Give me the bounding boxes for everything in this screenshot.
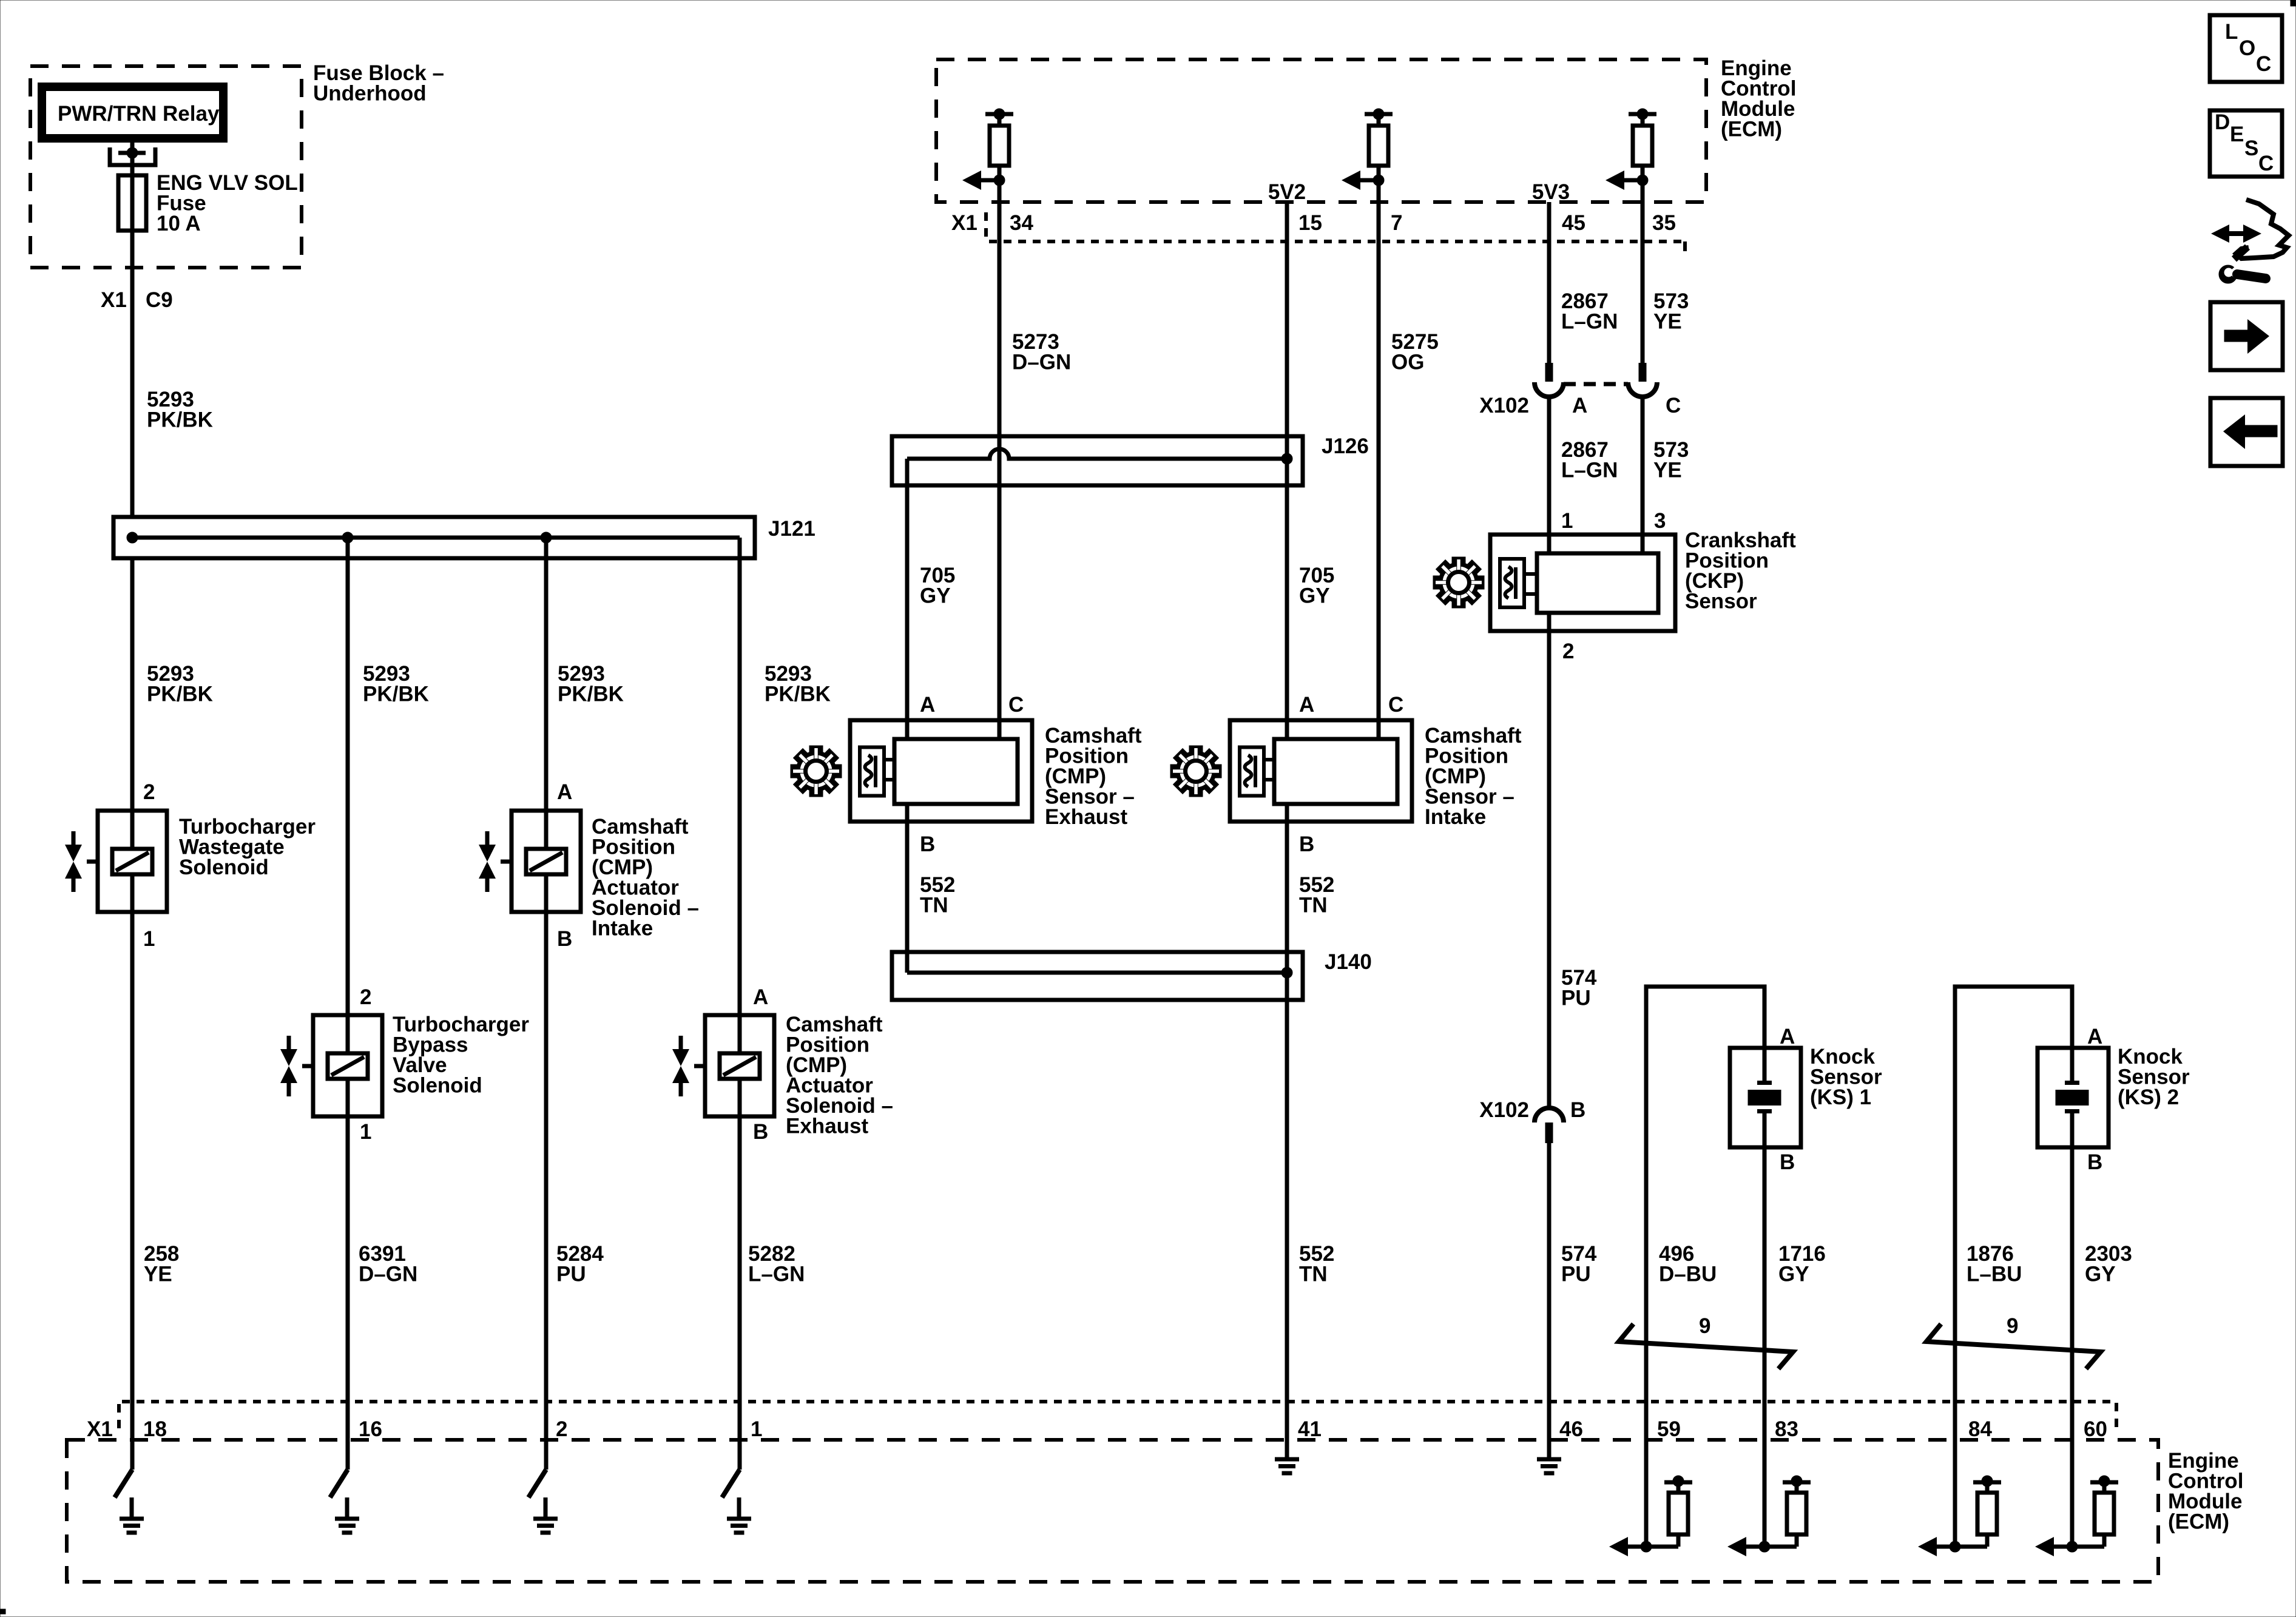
wire pin 41 into ECM (1285, 1402, 1289, 1457)
valve symbol valve arrows of CMP Actuator Solenoid Intake (479, 831, 496, 892)
svg-text:46: 46 (1559, 1417, 1583, 1441)
resistor to voltage w/ arrow for pin 84 (inside ECM) (1918, 1476, 2001, 1556)
fuse holder clip (110, 147, 155, 165)
knock sensor (KS) 1 box (1730, 1048, 1801, 1147)
svg-text:705GY: 705GY (920, 564, 955, 608)
wire 6391 D-GN to ECM pin 16 (346, 1116, 350, 1402)
svg-text:A: A (753, 985, 768, 1009)
junction dot at relay output (127, 147, 138, 158)
svg-text:15: 15 (1298, 211, 1322, 235)
wire 258 YE to ECM pin 18 (130, 912, 135, 1402)
svg-text:16: 16 (359, 1417, 382, 1441)
ground pin 2 driver ground (533, 1497, 558, 1533)
wire pin 1 into ECM (738, 1402, 742, 1470)
svg-text:C: C (1388, 693, 1403, 717)
svg-text:B: B (557, 927, 572, 951)
connector X102 B: male pin (1545, 1122, 1553, 1143)
svg-text:34: 34 (1010, 211, 1033, 235)
svg-text:C: C (2256, 52, 2271, 76)
ground pin 1 driver ground (727, 1497, 751, 1533)
wire 573 YE: ECM 35 to X102 C (1641, 180, 1645, 363)
svg-text:59: 59 (1657, 1417, 1681, 1441)
resistor to voltage w/ arrow for pin 83 (inside ECM) (1727, 1476, 1811, 1556)
valve symbol valve arrows of Turbocharger Wastegate Solenoid (65, 831, 82, 892)
resistor pull-up for pin 7 (inside ECM) (1342, 109, 1393, 190)
svg-text:84: 84 (1968, 1417, 1992, 1441)
forward arrow icon box (2210, 302, 2283, 370)
relay output bar (118, 151, 146, 155)
svg-text:B: B (1780, 1150, 1795, 1174)
svg-text:J126: J126 (1322, 434, 1369, 458)
svg-text:A: A (1572, 394, 1587, 417)
wrench handle (2237, 274, 2266, 279)
svg-text:B: B (920, 832, 935, 856)
wire 552 TN: CMP intake B through J140 to ECM pin 41 (1285, 804, 1289, 1402)
switch contact driver pin 16 (inside ECM) (330, 1470, 348, 1497)
ground pin 46 ground (1537, 1438, 1561, 1473)
wire 5293 PK/BK to wastegate solenoid (130, 558, 135, 811)
wire 5275 OG: ECM 7 to CMP intake C (1377, 180, 1381, 739)
svg-text:C: C (2258, 152, 2274, 175)
svg-text:B: B (1570, 1098, 1585, 1122)
wire 2867 L-GN: X102 A to CKP pin 1 (1547, 397, 1551, 553)
wire 705 GY: J126 to CMP exhaust A (905, 459, 910, 739)
junction dot J121 @ wire 16 (342, 532, 353, 543)
wire pin 2 into ECM (544, 1402, 549, 1470)
svg-text:1: 1 (1561, 509, 1573, 533)
splice pack J140 (892, 952, 1303, 1000)
Crankshaft Position (CKP) Sensor outer case (1490, 535, 1675, 631)
knock sensor 1 harness loop (1646, 987, 1764, 1402)
svg-text:J140: J140 (1325, 950, 1372, 974)
fuse ENG VLV SOL 10A (118, 175, 146, 231)
knock sensor (KS) 2 box (2038, 1048, 2109, 1147)
Camshaft Position (CMP) Sensor Exhaust body (894, 739, 1018, 804)
back arrow (2223, 414, 2277, 449)
connection stubs of Camshaft Position (CMP) Sensor Exhaust (884, 758, 894, 761)
wire: relay to fuse (130, 138, 135, 177)
svg-text:C: C (1666, 394, 1681, 417)
wire 5293 PK/BK to CMP actuator exhaust (738, 538, 742, 1015)
wire 2867 L-GN: ECM 45 to X102 A (1547, 202, 1551, 363)
pickup element of Camshaft Position (CMP) Sensor Exhaust (860, 748, 884, 796)
svg-text:2: 2 (143, 780, 155, 804)
resistor pull-up for pin 34 (inside ECM) (962, 109, 1013, 190)
knock sensor 2 harness loop (1955, 987, 2072, 1402)
X102 connector dashed link A-C (1564, 382, 1628, 387)
ground pin 18 driver ground (120, 1497, 144, 1533)
wire 573 YE: X102 C to CKP pin 3 (1641, 397, 1645, 553)
solenoid Turbocharger Bypass Valve Solenoid (302, 1015, 382, 1116)
ECM X1 connector dotted line (bottom) (122, 1400, 2116, 1403)
Engine Control Module (ECM) bottom dashed box (67, 1440, 2158, 1582)
svg-text:41: 41 (1298, 1417, 1322, 1441)
wire pin 59 into ECM (1644, 1402, 1649, 1547)
wire 574 PU: CKP pin 2 to X102 B (1547, 613, 1551, 1108)
svg-text:X102: X102 (1479, 1098, 1529, 1122)
wire 574 PU: X102 B to ECM pin 46 (1547, 1143, 1551, 1402)
svg-text:X1: X1 (87, 1417, 113, 1441)
back arrow icon box (2210, 398, 2283, 466)
wire 1716 GY: KS1 B to ECM pin 83 (1763, 1112, 1767, 1402)
gear icon (CMP sensor intake) (1170, 746, 1221, 797)
switch contact driver pin 1 (inside ECM) (722, 1470, 740, 1497)
J126 internal bus with hop over 5273 (907, 449, 1287, 459)
svg-text:A: A (557, 780, 572, 804)
svg-text:3: 3 (1654, 509, 1666, 533)
wire 2303 GY: KS2 B to ECM pin 60 (2070, 1112, 2075, 1402)
svg-text:A: A (920, 693, 935, 717)
Camshaft Position (CMP) Sensor Exhaust outer case (850, 720, 1032, 822)
right tick (bottom pin row) (2115, 1403, 2118, 1433)
wrench jaw (2219, 265, 2237, 283)
svg-text:C9: C9 (146, 288, 173, 312)
junction dot J140 (1281, 967, 1292, 978)
valve symbol valve arrows of Turbocharger Bypass Valve Solenoid (280, 1036, 297, 1096)
svg-text:J121: J121 (768, 517, 815, 541)
wire 552 TN: CMP exhaust B to J140 (905, 804, 910, 973)
piezo element of knock sensor 2 (2056, 1083, 2089, 1112)
ground pin 41 ground (1275, 1438, 1299, 1473)
piezo element of knock sensor 1 (1748, 1083, 1781, 1112)
wire pin 46 into ECM (1547, 1402, 1551, 1457)
stray tick mark top-right corner (2291, 0, 2296, 6)
svg-text:18: 18 (143, 1417, 167, 1441)
svg-text:PWR/TRN Relay: PWR/TRN Relay (58, 102, 220, 126)
fuse block - underhood dashed box (30, 66, 302, 268)
hand cuff (2234, 247, 2247, 259)
PWR/TRN Relay box (42, 87, 223, 138)
wire: fuse down to J121 (5293 PK/BK) (130, 177, 135, 517)
wire 5293 PK/BK to bypass solenoid (346, 538, 350, 1015)
solenoid Turbocharger Wastegate Solenoid (87, 811, 167, 912)
pickup element of Camshaft Position (CMP) Sensor Intake (1240, 748, 1264, 796)
svg-text:L: L (2225, 20, 2238, 44)
valve symbol valve arrows of CMP Actuator Solenoid Exhaust (672, 1036, 689, 1096)
svg-text:35: 35 (1652, 211, 1676, 235)
gear icon (CMP sensor exhaust) (791, 746, 842, 797)
svg-text:60: 60 (2084, 1417, 2107, 1441)
twisted-pair mark knock sensor 2 pair (1926, 1324, 2101, 1369)
right tick (top pin row) (1683, 241, 1687, 251)
svg-text:X1: X1 (951, 211, 977, 235)
svg-text:1: 1 (751, 1417, 762, 1441)
ECM X1 connector dotted line (top) (989, 240, 1685, 243)
wire pin 16 into ECM (346, 1402, 350, 1470)
svg-text:1876L–BU: 1876L–BU (1967, 1242, 2022, 1286)
svg-text:2: 2 (360, 985, 371, 1009)
X1 tick (bottom) (117, 1404, 121, 1431)
wire pin 83 into ECM (1763, 1402, 1767, 1547)
switch contact driver pin 18 (inside ECM) (115, 1470, 132, 1497)
svg-text:1: 1 (143, 927, 155, 951)
svg-text:5V2: 5V2 (1268, 180, 1306, 204)
svg-text:B: B (753, 1120, 768, 1144)
Camshaft Position (CMP) Sensor Intake body (1274, 739, 1397, 804)
connection stubs of Camshaft Position (CMP) Sensor Intake (1264, 758, 1274, 761)
connection stubs of Crankshaft Position (CKP) Sensor (1524, 572, 1537, 576)
svg-text:E: E (2230, 123, 2244, 146)
svg-text:2: 2 (1562, 640, 1574, 663)
connector X102 A: male pin (1545, 363, 1553, 382)
resistor pull-up for pin 35 (inside ECM) (1606, 109, 1656, 190)
svg-text:7: 7 (1391, 211, 1402, 235)
svg-text:C: C (1008, 693, 1024, 717)
DESC icon box (2210, 110, 2282, 177)
junction dot J121 @ wire 18 (127, 532, 138, 543)
svg-text:B: B (1299, 832, 1314, 856)
svg-text:B: B (2087, 1150, 2102, 1174)
wire pin 84 into ECM (1953, 1402, 1957, 1547)
stray period mark bottom-left (0, 1609, 5, 1614)
svg-text:1: 1 (360, 1120, 371, 1144)
wire pin 18 into ECM (130, 1402, 135, 1470)
svg-text:D: D (2215, 110, 2230, 134)
splice pack J121 (113, 517, 755, 558)
pickup element of Crankshaft Position (CKP) Sensor (1500, 559, 1524, 607)
svg-text:9: 9 (1699, 1314, 1710, 1338)
X1 tick (top) (984, 212, 988, 238)
svg-text:A: A (1299, 693, 1314, 717)
splice pack J126 (892, 436, 1303, 485)
svg-text:9: 9 (2007, 1314, 2018, 1338)
resistor to voltage w/ arrow for pin 59 (inside ECM) (1609, 1476, 1692, 1556)
Crankshaft Position (CKP) Sensor body (1537, 553, 1658, 613)
svg-text:O: O (2239, 36, 2255, 60)
resistor to voltage w/ arrow for pin 60 (inside ECM) (2035, 1476, 2118, 1556)
wire pin 60 into ECM (2070, 1402, 2075, 1547)
svg-text:705GY: 705GY (1299, 564, 1334, 608)
J140 internal bus (907, 971, 1287, 975)
svg-text:A: A (1780, 1025, 1795, 1048)
junction dot J121 @ wire 2 (541, 532, 552, 543)
LOC icon box (2210, 15, 2282, 82)
connector X102 C: male pin (1639, 363, 1647, 382)
forward arrow (2224, 319, 2269, 354)
junction dot J126 (1281, 453, 1292, 464)
solenoid CMP Actuator Solenoid Intake (501, 811, 581, 912)
Engine Control Module (ECM) top dashed box (936, 59, 1706, 202)
svg-text:Fuse Block –Underhood: Fuse Block –Underhood (313, 61, 444, 106)
svg-text:83: 83 (1775, 1417, 1798, 1441)
wire 705 GY: ECM 15 through J126 to CMP intake A (1285, 202, 1289, 739)
connector X102 B: female terminal arc (1535, 1108, 1564, 1122)
wire 5273 D-GN: ECM 34 to CMP exhaust C (998, 180, 1002, 739)
J121 internal bus (130, 536, 740, 540)
switch contact driver pin 2 (inside ECM) (528, 1470, 546, 1497)
gear icon (CKP sensor) (1433, 557, 1484, 608)
svg-text:A: A (2087, 1025, 2102, 1048)
adjust/repair icon: double arrow, hand outline, wrench (2211, 200, 2289, 283)
svg-text:S: S (2244, 137, 2258, 160)
connector X102 A: female terminal arc (1535, 382, 1564, 397)
svg-text:45: 45 (1562, 211, 1585, 235)
ground pin 16 driver ground (335, 1497, 359, 1533)
Camshaft Position (CMP) Sensor Intake outer case (1230, 720, 1412, 822)
connector X102 C: female terminal arc (1628, 382, 1657, 397)
svg-text:2: 2 (556, 1417, 567, 1441)
wire 5284 PU to ECM pin 2 (544, 912, 549, 1402)
wire 5282 L-GN to ECM pin 1 (738, 1116, 742, 1402)
svg-text:X1: X1 (101, 288, 127, 312)
solenoid CMP Actuator Solenoid Exhaust (694, 1015, 774, 1116)
wire 5293 PK/BK to CMP actuator intake (544, 538, 549, 811)
svg-text:X102: X102 (1479, 394, 1529, 417)
twisted-pair mark knock sensor 1 pair (1619, 1324, 1793, 1369)
svg-text:5V3: 5V3 (1532, 180, 1570, 204)
